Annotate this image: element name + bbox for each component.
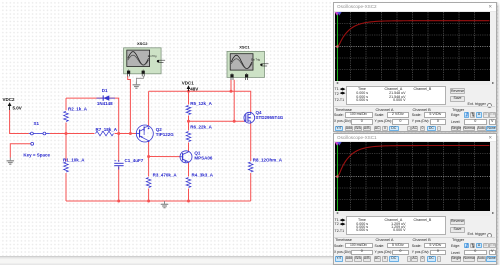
svg-text:XSC2: XSC2 — [137, 41, 148, 46]
svg-text:VDC2: VDC2 — [3, 97, 16, 102]
svg-text:R1_10k_A: R1_10k_A — [63, 157, 85, 162]
svg-text:R6_22k_A: R6_22k_A — [190, 125, 212, 130]
svg-text:D1: D1 — [102, 88, 108, 93]
svg-text:R4_3k3_A: R4_3k3_A — [192, 172, 214, 177]
svg-text:R8_12Ohm_A: R8_12Ohm_A — [253, 157, 283, 162]
svg-text:Ext Trig: Ext Trig — [251, 58, 260, 62]
svg-text:R2_1k_A: R2_1k_A — [68, 106, 88, 111]
svg-text:STD2955T4G: STD2955T4G — [256, 115, 284, 120]
svg-text:48V: 48V — [190, 87, 198, 92]
svg-text:5.0V: 5.0V — [13, 105, 22, 110]
svg-text:Key = Space: Key = Space — [23, 152, 50, 157]
svg-text:XSC1: XSC1 — [239, 45, 250, 50]
svg-text:VDC1: VDC1 — [182, 80, 195, 85]
svg-text:C1_4uF7: C1_4uF7 — [125, 158, 144, 163]
svg-text:S1: S1 — [34, 121, 40, 126]
svg-text:1N4148: 1N4148 — [97, 101, 113, 106]
svg-text:R7_18k_A: R7_18k_A — [96, 127, 118, 132]
svg-text:MPSA06: MPSA06 — [194, 156, 213, 161]
svg-text:Ext Trig: Ext Trig — [148, 54, 157, 58]
svg-text:TIP122G: TIP122G — [156, 132, 175, 137]
svg-text:R3_470k_A: R3_470k_A — [153, 172, 178, 177]
svg-text:R5_12k_A: R5_12k_A — [190, 101, 212, 106]
